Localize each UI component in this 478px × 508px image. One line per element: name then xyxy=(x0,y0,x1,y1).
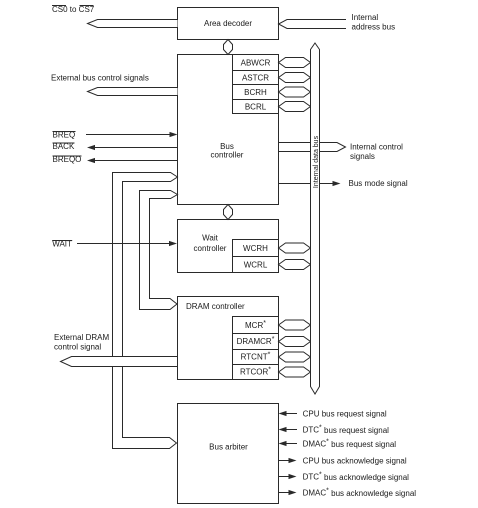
wire lens connector area decoder to bus controller xyxy=(224,40,233,55)
svg-text:RTCOR*: RTCOR* xyxy=(240,366,271,377)
wire CPU bus request signal input xyxy=(279,411,298,416)
block U1 Area decoder xyxy=(178,8,279,40)
block U3 Wait controller xyxy=(178,220,279,273)
wire WCRH to internal data bus bidirectional arrow xyxy=(279,243,311,253)
register WCRL xyxy=(233,257,279,273)
block U4 DRAM controller xyxy=(178,297,279,380)
wire external DRAM control signal hollow arrow xyxy=(61,357,178,367)
wire BCRH to internal data bus bidirectional arrow xyxy=(279,87,311,97)
wire bus mode signal output xyxy=(279,181,341,186)
svg-text:CS0 to CS7: CS0 to CS7 xyxy=(52,5,95,14)
wire DRAMCR to internal data bus bidirectional arrow xyxy=(279,337,311,347)
svg-text:DMAC* bus request signal: DMAC* bus request signal xyxy=(303,438,397,449)
svg-text:address bus: address bus xyxy=(352,23,396,32)
wire ASTCR to internal data bus bidirectional arrow xyxy=(279,73,311,83)
svg-text:Bus mode signal: Bus mode signal xyxy=(349,179,408,188)
svg-text:Bus arbiter: Bus arbiter xyxy=(209,443,248,452)
svg-text:External DRAM: External DRAM xyxy=(54,333,109,342)
register RTCNT xyxy=(233,350,279,365)
svg-text:DTC* bus acknowledge signal: DTC* bus acknowledge signal xyxy=(303,471,410,482)
register WCRH xyxy=(233,240,279,257)
node BREQ label xyxy=(53,131,76,140)
wire ABWCR to internal data bus bidirectional arrow xyxy=(279,58,311,68)
svg-text:Bus: Bus xyxy=(220,142,234,151)
svg-text:BCRH: BCRH xyxy=(244,88,267,97)
register DRAMCR xyxy=(233,334,279,350)
wire DMAC bus request signal input xyxy=(279,441,298,446)
node CS0 to CS7 label xyxy=(52,5,95,14)
svg-text:RTCNT*: RTCNT* xyxy=(241,351,271,362)
wire RTCNT to internal data bus bidirectional arrow xyxy=(279,352,311,362)
wire DRAM controller to bus controller hollow bus xyxy=(140,191,178,310)
svg-text:controller: controller xyxy=(211,151,244,160)
svg-text:CPU bus request signal: CPU bus request signal xyxy=(303,409,387,418)
wire DMAC bus acknowledge signal output xyxy=(279,490,297,495)
register BCRL xyxy=(233,100,279,114)
node BACK label xyxy=(53,142,75,151)
wire BCRL to internal data bus bidirectional arrow xyxy=(279,102,311,112)
node BREQO label xyxy=(53,155,82,164)
svg-text:DMAC* bus acknowledge signal: DMAC* bus acknowledge signal xyxy=(303,487,417,498)
bus internal data bus xyxy=(311,43,320,394)
node WAIT label xyxy=(52,240,72,249)
wire BREQ input xyxy=(86,132,178,137)
node internal control signals label xyxy=(350,143,403,162)
wire CPU bus acknowledge signal output xyxy=(279,458,297,463)
wire RTCOR to internal data bus bidirectional arrow xyxy=(279,367,311,377)
register BCRH xyxy=(233,85,279,100)
wire BACK output xyxy=(87,145,178,150)
wire BREQO output xyxy=(87,158,178,163)
wire internal control signals hollow arrow xyxy=(279,143,346,152)
svg-text:controller: controller xyxy=(194,244,227,253)
svg-text:DTC* bus request signal: DTC* bus request signal xyxy=(303,424,390,435)
svg-text:ASTCR: ASTCR xyxy=(242,73,269,82)
svg-text:WCRL: WCRL xyxy=(244,260,268,269)
svg-text:MCR*: MCR* xyxy=(245,319,266,330)
wire internal address bus input arrow xyxy=(279,20,347,29)
wire CS0-CS7 output hollow arrow xyxy=(88,20,178,28)
wire DTC bus acknowledge signal output xyxy=(279,474,297,479)
svg-text:Wait: Wait xyxy=(202,234,218,243)
wire DTC bus request signal input xyxy=(279,427,298,432)
svg-text:WCRH: WCRH xyxy=(243,244,268,253)
svg-text:External bus control signals: External bus control signals xyxy=(51,74,149,83)
svg-text:BCRL: BCRL xyxy=(245,102,267,111)
register RTCOR xyxy=(233,365,279,380)
wire bus arbiter to bus controller hollow bus xyxy=(113,173,178,449)
block U2 Bus controller xyxy=(178,55,279,205)
wire lens connector bus controller to wait controller xyxy=(224,205,233,220)
svg-text:Area decoder: Area decoder xyxy=(204,19,252,28)
svg-text:ABWCR: ABWCR xyxy=(241,58,271,67)
wire WAIT input xyxy=(77,241,177,246)
svg-text:control signal: control signal xyxy=(54,343,101,352)
wire external bus control signals hollow arrow xyxy=(88,88,178,96)
svg-text:Internal control: Internal control xyxy=(350,143,403,152)
svg-text:signals: signals xyxy=(350,152,375,161)
svg-text:Internal: Internal xyxy=(352,13,379,22)
node internal address bus label xyxy=(352,13,396,32)
register ASTCR xyxy=(233,71,279,85)
svg-text:CPU bus acknowledge signal: CPU bus acknowledge signal xyxy=(303,456,407,465)
wire WCRL to internal data bus bidirectional arrow xyxy=(279,260,311,270)
block U5 Bus arbiter xyxy=(178,404,279,504)
register MCR xyxy=(233,317,279,334)
node external DRAM control signal label xyxy=(54,333,109,352)
svg-text:DRAM controller: DRAM controller xyxy=(186,302,245,311)
wire MCR to internal data bus bidirectional arrow xyxy=(279,320,311,330)
svg-text:DRAMCR*: DRAMCR* xyxy=(237,336,275,347)
register ABWCR xyxy=(233,55,279,71)
svg-text:Internal data bus: Internal data bus xyxy=(313,135,320,188)
